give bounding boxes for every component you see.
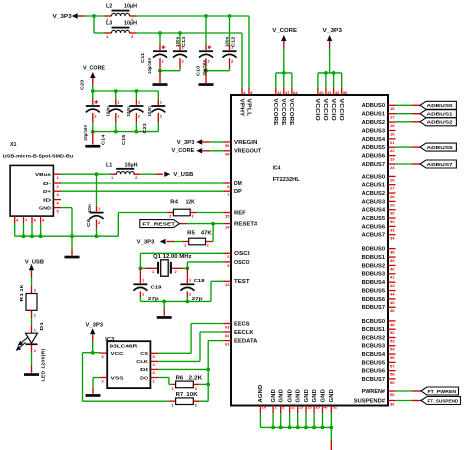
svg-text:21: 21 [390,140,395,145]
svg-text:D+: D+ [43,189,51,195]
svg-text:58: 58 [390,372,395,377]
svg-text:VREGIN: VREGIN [234,140,258,146]
svg-text:ADBUS2: ADBUS2 [362,120,386,126]
svg-text:55: 55 [390,355,395,360]
svg-text:TEST: TEST [234,279,250,285]
svg-text:ADBUS6: ADBUS6 [362,154,386,160]
svg-text:V_USB: V_USB [25,259,45,265]
svg-text:R6: R6 [176,375,184,381]
svg-text:13: 13 [225,282,230,287]
svg-text:V_CORE: V_CORE [172,148,196,154]
svg-text:V_3P3: V_3P3 [137,240,155,246]
svg-text:ADBUS0: ADBUS0 [427,103,454,109]
svg-text:BCBUS2: BCBUS2 [362,335,386,341]
svg-text:100n: 100n [105,106,110,117]
svg-text:23: 23 [390,157,395,162]
svg-text:44: 44 [390,291,395,296]
svg-text:ADBUS7: ADBUS7 [427,162,454,168]
svg-text:1K: 1K [19,284,24,291]
svg-text:19: 19 [390,131,395,136]
svg-text:DP: DP [234,189,243,195]
svg-text:52: 52 [390,330,395,335]
svg-text:VSS: VSS [111,375,125,381]
svg-text:38: 38 [390,250,395,255]
svg-text:Q1 12.00 MHz: Q1 12.00 MHz [153,254,192,260]
svg-text:VPHY: VPHY [238,99,244,118]
svg-text:PWREN#: PWREN# [362,389,386,395]
svg-text:CS: CS [140,351,149,357]
svg-text:BDBUS7: BDBUS7 [362,305,386,311]
svg-text:VBus: VBus [35,172,51,178]
svg-text:14: 14 [225,225,230,230]
svg-text:BDBUS5: BDBUS5 [362,288,386,294]
svg-text:ACBUS3: ACBUS3 [362,199,386,205]
svg-text:30: 30 [390,211,395,216]
svg-text:V_3P3: V_3P3 [53,14,72,20]
svg-text:C23: C23 [142,123,147,134]
svg-text:FT_SUSPEND: FT_SUSPEND [428,398,459,404]
svg-text:C10: C10 [195,65,200,76]
svg-text:28: 28 [390,194,395,199]
svg-text:GND: GND [320,389,326,403]
svg-text:100n: 100n [175,36,180,47]
svg-text:REF: REF [234,210,246,216]
svg-text:48: 48 [390,322,395,327]
svg-text:63: 63 [225,324,230,329]
svg-text:57: 57 [390,363,395,368]
svg-text:VCCIO: VCCIO [322,99,328,122]
svg-text:BCBUS5: BCBUS5 [362,360,386,366]
svg-text:29: 29 [390,202,395,207]
svg-text:EECS: EECS [234,321,250,327]
svg-text:DO: DO [140,375,148,381]
svg-text:OSCO: OSCO [234,260,250,266]
svg-text:34: 34 [390,236,395,241]
svg-text:BDBUS6: BDBUS6 [362,297,386,303]
svg-text:45: 45 [390,300,395,305]
svg-text:ADBUS0: ADBUS0 [362,103,386,109]
svg-text:BDBUS4: BDBUS4 [362,280,386,286]
svg-text:BCBUS1: BCBUS1 [362,327,386,333]
svg-text:FT_RESET: FT_RESET [142,222,175,228]
svg-text:10µH: 10µH [124,3,137,9]
svg-text:X1: X1 [10,142,17,148]
svg-text:31: 31 [327,90,332,95]
svg-text:FT_PWREN: FT_PWREN [428,389,457,395]
svg-text:VCCIO: VCCIO [314,99,320,122]
svg-text:10µ/16V: 10µ/16V [147,58,152,75]
svg-text:GND: GND [312,389,318,403]
svg-text:V_CORE: V_CORE [272,28,297,34]
svg-text:25: 25 [307,405,312,410]
svg-text:16: 16 [390,106,395,111]
svg-text:VCCORE: VCCORE [280,99,286,127]
svg-text:L2: L2 [106,3,113,9]
svg-text:64: 64 [293,90,298,95]
svg-text:ADBUS3: ADBUS3 [362,128,386,134]
svg-text:ACBUS1: ACBUS1 [362,183,386,189]
svg-text:VREGOUT: VREGOUT [234,149,261,155]
svg-text:C14: C14 [101,134,106,145]
svg-text:10µH: 10µH [124,21,137,27]
svg-text:ADBUS1: ADBUS1 [362,112,386,118]
svg-text:OSCI: OSCI [234,251,250,257]
svg-text:54: 54 [390,347,395,352]
svg-text:GND: GND [39,205,52,211]
svg-text:GND: GND [287,389,293,403]
svg-text:27: 27 [390,186,395,191]
svg-text:20: 20 [319,90,324,95]
svg-text:VCCIO: VCCIO [330,99,336,122]
svg-text:ACBUS0: ACBUS0 [362,174,386,180]
svg-text:V_3P3: V_3P3 [85,323,103,329]
svg-text:D-: D- [43,181,52,187]
svg-text:62: 62 [225,333,230,338]
svg-text:50: 50 [225,143,230,148]
svg-text:18: 18 [390,123,395,128]
svg-text:BDBUS0: BDBUS0 [362,247,386,253]
svg-text:61: 61 [225,342,230,347]
svg-text:49: 49 [225,152,230,157]
svg-text:GND: GND [329,389,335,403]
svg-text:C19: C19 [151,284,162,290]
svg-text:ACBUS5: ACBUS5 [362,216,386,222]
svg-text:GND: GND [304,389,310,403]
svg-text:47: 47 [324,405,329,410]
svg-text:C6: C6 [86,218,91,227]
svg-text:10n: 10n [87,204,92,213]
svg-text:10µH: 10µH [125,163,138,169]
svg-text:43: 43 [390,283,395,288]
svg-text:USB-micro-B-5pol-SMD-Bu: USB-micro-B-5pol-SMD-Bu [3,154,74,159]
svg-text:VCCIO: VCCIO [338,99,344,122]
svg-text:60: 60 [390,392,395,397]
svg-text:BDBUS1: BDBUS1 [362,255,386,261]
svg-text:VCCORE: VCCORE [272,99,278,127]
svg-text:32: 32 [390,219,395,224]
svg-text:AGND: AGND [258,384,264,402]
svg-text:46: 46 [390,308,395,313]
svg-text:V_USB: V_USB [173,172,193,178]
svg-text:22: 22 [390,148,395,153]
svg-text:35: 35 [315,405,320,410]
svg-text:BCBUS6: BCBUS6 [362,369,386,375]
svg-text:ADBUS4: ADBUS4 [362,137,386,143]
svg-text:BDBUS3: BDBUS3 [362,272,386,278]
svg-text:GND: GND [279,389,285,403]
svg-text:ADBUS1: ADBUS1 [427,112,454,118]
svg-text:12K: 12K [186,200,196,206]
svg-text:15: 15 [299,405,304,410]
svg-text:CLK: CLK [136,359,148,365]
svg-text:10µ/16V: 10µ/16V [202,60,207,77]
svg-text:VPLL: VPLL [245,99,251,117]
svg-text:47K: 47K [201,231,212,237]
svg-text:ADBUS2: ADBUS2 [427,120,454,126]
svg-text:BCBUS7: BCBUS7 [362,377,386,383]
svg-text:26: 26 [390,177,395,182]
svg-text:R7: R7 [176,392,184,398]
svg-text:GND: GND [296,389,302,403]
svg-text:10µ/16V: 10µ/16V [83,125,88,142]
svg-text:SUSPEND#: SUSPEND# [354,398,385,404]
svg-text:C15: C15 [121,134,126,145]
svg-text:L3: L3 [106,21,113,27]
svg-text:10: 10 [262,405,267,410]
svg-text:FT2232HL: FT2232HL [273,177,300,183]
svg-text:R5: R5 [187,231,195,237]
svg-text:ADBUS5: ADBUS5 [427,145,454,151]
svg-text:ADBUS7: ADBUS7 [362,162,386,168]
svg-text:GND: GND [271,389,277,403]
svg-text:100n: 100n [224,36,229,47]
svg-text:LED 1206(R): LED 1206(R) [40,348,45,381]
svg-text:37: 37 [285,90,290,95]
svg-text:C12: C12 [231,36,236,47]
svg-text:DM: DM [234,181,242,187]
svg-text:17: 17 [390,115,395,120]
svg-text:R4: R4 [170,200,178,206]
svg-text:100n: 100n [126,106,131,117]
svg-text:ID: ID [43,197,52,203]
svg-text:VCC: VCC [111,351,125,357]
svg-text:10K: 10K [186,392,198,398]
svg-text:C11: C11 [140,52,145,63]
svg-text:ACBUS4: ACBUS4 [362,208,386,214]
svg-text:BDBUS2: BDBUS2 [362,263,386,269]
svg-text:ACBUS2: ACBUS2 [362,191,386,197]
svg-text:V_3P3: V_3P3 [323,28,343,34]
svg-text:C20: C20 [79,79,84,90]
svg-text:V_3P3: V_3P3 [177,140,195,146]
svg-text:BCBUS3: BCBUS3 [362,344,386,350]
svg-text:24: 24 [390,165,395,170]
svg-text:40: 40 [390,266,395,271]
svg-text:93LC46R: 93LC46R [110,344,139,349]
svg-text:100n: 100n [147,106,152,117]
svg-text:L1: L1 [106,163,113,169]
svg-text:DI: DI [140,367,149,373]
svg-text:R1: R1 [19,292,24,301]
svg-text:33: 33 [390,227,395,232]
svg-text:C18: C18 [194,278,205,284]
svg-text:BCBUS0: BCBUS0 [362,319,386,325]
svg-text:41: 41 [390,275,395,280]
svg-text:C13: C13 [181,36,186,47]
svg-text:51: 51 [333,405,338,410]
svg-text:ACBUS6: ACBUS6 [362,224,386,230]
svg-text:15: 15 [225,213,230,218]
svg-text:EECLK: EECLK [234,330,254,336]
svg-text:EEDATA: EEDATA [234,339,258,345]
svg-text:2.2K: 2.2K [189,375,203,381]
svg-text:BCBUS4: BCBUS4 [362,352,386,358]
svg-text:12: 12 [277,90,282,95]
svg-text:59: 59 [390,380,395,385]
svg-text:ACBUS7: ACBUS7 [362,233,386,239]
svg-text:D1: D1 [39,321,44,330]
svg-text:56: 56 [343,90,348,95]
svg-text:V_CORE: V_CORE [83,66,106,72]
svg-text:36: 36 [390,401,395,406]
svg-text:42: 42 [335,90,340,95]
svg-text:VCCORE: VCCORE [288,99,294,127]
svg-text:ADBUS5: ADBUS5 [362,145,386,151]
svg-text:53: 53 [390,338,395,343]
svg-text:RESET#: RESET# [234,222,258,228]
svg-text:39: 39 [390,258,395,263]
svg-text:IC4: IC4 [273,166,281,172]
